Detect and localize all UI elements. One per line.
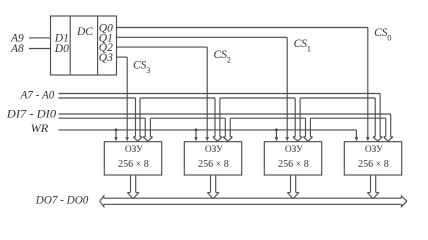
bus DI7-DI0 top line [59,113,391,115]
wire Q1 / CS1 net [117,36,288,38]
svg-text:ОЗУ: ОЗУ [205,145,223,155]
svg-text:3: 3 [146,65,150,75]
RAM U4 box [264,142,321,175]
RAM U2 box [104,142,161,175]
RAM 3 data output hollow arrow to DO bus [290,175,292,193]
label CS0 [374,27,391,43]
svg-text:256 × 8: 256 × 8 [118,159,149,170]
arrow CS0 into RAM [366,137,370,141]
decoder U1 DC box [51,16,117,75]
svg-text:256 × 8: 256 × 8 [358,159,389,170]
bus DO7-DO0 with end arrows [100,196,407,207]
svg-text:CS: CS [133,59,147,71]
svg-text:Q3: Q3 [99,52,113,64]
svg-text:D0: D0 [54,43,69,55]
svg-text:ОЗУ: ОЗУ [365,145,383,155]
wire Q2 / CS2 net [117,46,208,48]
arrow CS2 into RAM [205,137,209,141]
wire WR [59,129,357,131]
svg-text:CS: CS [374,27,388,39]
svg-text:ОЗУ: ОЗУ [125,145,143,155]
svg-text:CS: CS [214,49,228,61]
junction dot WR 1 [115,128,118,131]
wire Q3 / CS3 net [117,56,128,58]
label CS1 [294,38,311,54]
wire A8 to decoder [29,48,51,50]
wire Q0 / CS0 net [117,27,368,29]
wire WR tap to RAM 2 [195,130,197,138]
svg-text:DC: DC [76,26,93,38]
bus tap DI to RAM 2 (hollow arrow) [224,118,226,137]
svg-text:0: 0 [387,32,391,42]
RAM U5 box [344,142,401,175]
junction dot WR 2 [195,128,198,131]
svg-text:2: 2 [227,55,231,65]
svg-text:A7 - A0: A7 - A0 [20,89,55,101]
wire WR tap to RAM 4 [355,130,357,138]
wire A9 to decoder [29,37,51,39]
svg-text:WR: WR [31,123,49,135]
svg-text:A8: A8 [10,43,24,55]
label CS3 [133,59,150,75]
RAM U3 box [184,142,241,175]
svg-text:256 × 8: 256 × 8 [278,159,309,170]
bus tap A to RAM 2 (hollow arrow) [214,98,216,137]
bus tap DI to RAM 3 (hollow arrow) [305,118,307,137]
bus tap DI to RAM 4 (hollow arrow) [385,118,387,137]
svg-text:ОЗУ: ОЗУ [285,145,303,155]
svg-text:256 × 8: 256 × 8 [198,159,229,170]
bus tap A to RAM 3 (hollow arrow) [294,98,296,137]
svg-text:1: 1 [307,44,311,54]
RAM 4 data output hollow arrow to DO bus [370,175,372,193]
wire WR tap to RAM 3 [275,130,277,138]
svg-text:DO7 - DO0: DO7 - DO0 [35,195,89,207]
bus tap DI to RAM 1 (hollow arrow) [144,118,146,137]
arrow CS3 into RAM [125,137,129,141]
svg-text:DI7 - DI0: DI7 - DI0 [6,108,57,120]
wire WR tap to RAM 1 [115,130,117,138]
RAM 2 data output hollow arrow to DO bus [210,175,212,193]
bus tap A to RAM 4 (hollow arrow) [374,98,376,137]
RAM 1 data output hollow arrow to DO bus [130,175,132,193]
junction dot WR 3 [275,128,278,131]
bus A7-A0 bottom line [59,97,136,99]
bus DI7-DI0 bottom line [59,117,146,119]
label CS2 [214,49,231,65]
svg-text:CS: CS [294,38,308,50]
bus tap A to RAM 1 (hollow arrow) [135,98,137,137]
bus A7-A0 top line [59,93,381,95]
arrow CS1 into RAM [285,137,289,141]
